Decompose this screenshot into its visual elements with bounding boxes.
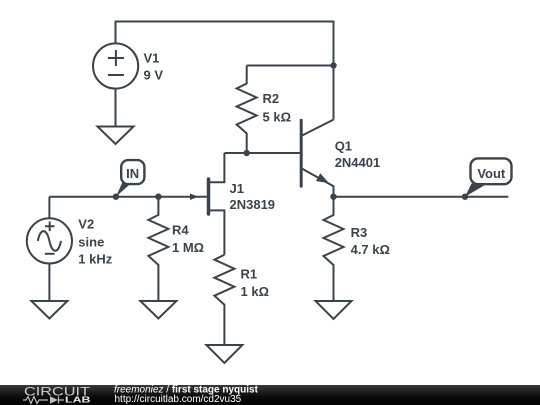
svg-text:http://circuitlab.com/cd2vu35: http://circuitlab.com/cd2vu35	[115, 394, 242, 405]
svg-text:1 kΩ: 1 kΩ	[241, 284, 270, 299]
wire top rail (V1+ up, across, down to Q1 collector)	[116, 22, 334, 120]
svg-text:V1: V1	[144, 51, 160, 66]
resistor R2	[237, 66, 257, 154]
JFET J1 2N3819	[190, 153, 225, 255]
wire R2 top to collector rail	[247, 65, 334, 67]
junction dot: Q1 emitter node	[330, 194, 336, 200]
transistor Q1 2N4401	[301, 120, 333, 197]
svg-text:R1: R1	[241, 267, 258, 282]
resistor R1	[214, 255, 234, 345]
ground (R1)	[206, 345, 242, 363]
junction dot: Vout flag tap	[462, 194, 468, 200]
junction dot: R2 top / collector rail	[330, 62, 336, 68]
svg-text:J1: J1	[230, 181, 244, 196]
svg-text:1 MΩ: 1 MΩ	[172, 240, 204, 255]
resistor R3	[324, 197, 344, 301]
wire output rail: Q1 emitter node to right edge	[334, 196, 509, 198]
svg-text:2N3819: 2N3819	[230, 197, 276, 212]
svg-text:Q1: Q1	[335, 139, 352, 154]
svg-text:LAB: LAB	[65, 394, 91, 404]
wire base node: J1 drain tee to Q1 base	[224, 152, 300, 154]
node flag IN	[116, 160, 144, 197]
svg-text:Vout: Vout	[477, 166, 506, 181]
voltage source V1	[93, 43, 138, 88]
svg-text:R4: R4	[172, 223, 189, 238]
svg-text:9 V: 9 V	[144, 68, 164, 83]
svg-text:R2: R2	[263, 91, 280, 106]
resistor R4	[148, 197, 168, 301]
CircuitLab logo: resistor-diode glyph	[23, 396, 64, 403]
svg-text:1 kHz: 1 kHz	[78, 252, 112, 267]
ground (V2)	[31, 301, 67, 319]
node flag Vout	[465, 158, 512, 196]
junction dot: IN flag tap	[113, 194, 119, 200]
svg-text:V2: V2	[78, 217, 94, 232]
ground (R4)	[140, 301, 176, 319]
ground (V1)	[98, 127, 134, 145]
voltage source V2 (sine)	[27, 197, 72, 301]
junction dot: R2 bottom / base wire	[244, 150, 250, 156]
svg-text:sine: sine	[78, 235, 104, 250]
wire input rail: V2+ to J1 gate	[49, 196, 206, 198]
footer bar	[0, 385, 540, 405]
svg-text:5 kΩ: 5 kΩ	[263, 110, 292, 125]
svg-text:R3: R3	[351, 225, 368, 240]
svg-text:IN: IN	[126, 166, 139, 181]
junction dot: R4 top tap	[155, 194, 161, 200]
svg-text:2N4401: 2N4401	[335, 155, 381, 170]
wire V1- to ground	[115, 89, 117, 127]
ground (R3)	[316, 301, 352, 319]
svg-text:4.7 kΩ: 4.7 kΩ	[351, 242, 390, 257]
